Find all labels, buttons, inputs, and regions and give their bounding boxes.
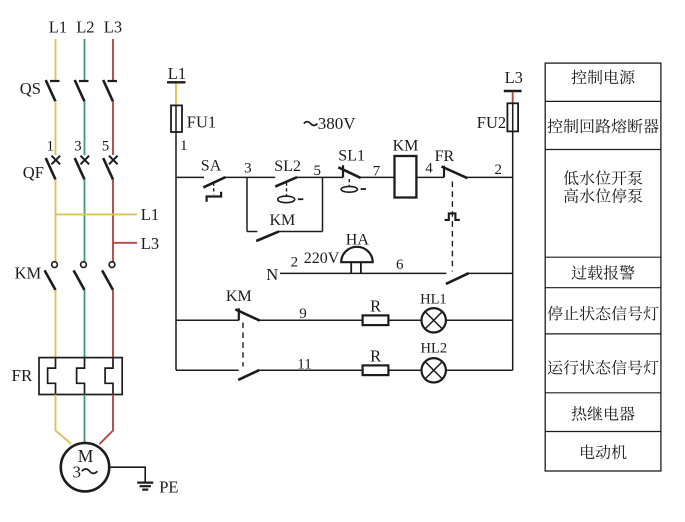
svg-text:HL1: HL1 xyxy=(420,291,447,307)
svg-text:L2: L2 xyxy=(76,17,94,36)
fuse FU1 xyxy=(171,105,182,132)
wire L1 tap xyxy=(56,213,138,215)
lamp HL2 xyxy=(422,358,446,382)
wire N line xyxy=(280,272,446,274)
svg-text:FU1: FU1 xyxy=(187,113,216,132)
wire rung SA-SL2 xyxy=(225,176,276,178)
label QF xyxy=(23,163,44,182)
label FU1 xyxy=(187,113,216,132)
switch SL2 xyxy=(275,177,297,186)
svg-text:9: 9 xyxy=(299,306,307,322)
contactor KM main pole 1 xyxy=(45,262,58,290)
wire rung1 left xyxy=(176,319,239,321)
svg-text:FU2: FU2 xyxy=(477,113,506,132)
operator SA xyxy=(207,183,222,202)
svg-text:3: 3 xyxy=(72,462,81,481)
thermal element FR 2 xyxy=(77,358,85,393)
label R1 xyxy=(370,296,381,315)
wire QF-KM phase 1 xyxy=(55,180,57,262)
label FR xyxy=(12,366,33,385)
label HL1 xyxy=(420,291,447,307)
wire FR-motor phase 3 xyxy=(99,395,113,445)
svg-text:L3: L3 xyxy=(141,234,159,253)
table row 低水位开泵 xyxy=(564,170,643,185)
table frame xyxy=(545,63,661,471)
wire rung SL1-KM xyxy=(361,176,395,178)
wire L1-FU1 xyxy=(175,84,177,107)
motor M circle xyxy=(61,443,109,491)
contact KM nc xyxy=(235,308,259,320)
label 1 control xyxy=(180,138,188,154)
wire QS-QF phase 3 xyxy=(112,101,114,155)
wire KM-FR phase 2 xyxy=(84,290,86,358)
svg-text:PE: PE xyxy=(159,477,178,496)
svg-text:380V: 380V xyxy=(318,114,357,133)
node 3 branch wire xyxy=(246,177,248,231)
label KM aux xyxy=(270,212,296,229)
table row 控制电源 xyxy=(571,70,634,85)
svg-text:FR: FR xyxy=(435,148,455,165)
svg-text:L1: L1 xyxy=(168,64,186,83)
table row 过载报警 xyxy=(572,265,635,280)
node 5 branch wire xyxy=(322,177,324,231)
wire rung left xyxy=(176,176,204,178)
coil KM xyxy=(395,156,417,198)
label 2 node xyxy=(495,162,503,178)
label 380V xyxy=(304,114,357,133)
wire QF-KM phase 3 xyxy=(112,180,114,262)
label 7 xyxy=(373,164,381,180)
svg-text:3: 3 xyxy=(74,138,82,154)
switch SA xyxy=(203,177,225,187)
label 2 alarm xyxy=(291,255,299,271)
ground PE xyxy=(137,483,153,490)
svg-text:7: 7 xyxy=(373,164,381,180)
svg-text:SA: SA xyxy=(201,157,222,174)
label N xyxy=(266,265,278,284)
svg-text:5: 5 xyxy=(102,138,110,154)
wire rung FR-right xyxy=(466,176,513,178)
motor label M xyxy=(78,446,94,466)
svg-text:4: 4 xyxy=(425,161,433,177)
contact SL1 xyxy=(338,165,360,178)
label 5 xyxy=(102,138,110,154)
label SL1 xyxy=(338,147,365,164)
wire QS-QF phase 2 xyxy=(84,101,86,155)
table row 停止状态信号灯 xyxy=(548,306,659,321)
label 4 xyxy=(425,161,433,177)
label 9 xyxy=(299,306,307,322)
svg-text:KM: KM xyxy=(270,212,296,229)
switch QS pole 3 xyxy=(103,80,117,102)
linkage FR dashed xyxy=(451,182,453,272)
svg-text:220V: 220V xyxy=(304,250,340,267)
label L1 control xyxy=(167,64,186,83)
label QS xyxy=(20,79,41,98)
wire N-right xyxy=(466,272,512,274)
wire HL1-right xyxy=(446,319,513,321)
svg-text:QF: QF xyxy=(23,163,44,182)
wire KM-FR phase 3 xyxy=(112,290,114,358)
label 11 xyxy=(297,357,311,373)
svg-text:KM: KM xyxy=(15,264,42,283)
resistor R1 xyxy=(363,315,389,325)
svg-text:L1: L1 xyxy=(141,205,159,224)
table row 热继电器 xyxy=(572,406,635,421)
label L2 phase xyxy=(76,17,94,36)
svg-text:5: 5 xyxy=(314,163,322,179)
label KM coil xyxy=(393,137,419,154)
wire rung KM-FR xyxy=(416,176,444,178)
label FU2 xyxy=(477,113,506,132)
wire left rail xyxy=(175,132,177,370)
contact KM aux xyxy=(247,231,323,241)
table row 高水位停泵 xyxy=(564,188,642,203)
label HL2 xyxy=(421,340,448,356)
wire right rail xyxy=(512,131,514,370)
label L3 control xyxy=(504,68,523,91)
wire L3 top xyxy=(112,39,114,81)
contact FR xyxy=(442,166,468,178)
svg-text:3: 3 xyxy=(244,161,252,177)
svg-text:KM: KM xyxy=(226,288,252,305)
table row 控制回路熔断器 xyxy=(547,119,658,134)
wire L1 top xyxy=(55,39,57,81)
label L3 phase xyxy=(104,17,122,36)
svg-text:QS: QS xyxy=(20,79,41,98)
svg-text:11: 11 xyxy=(297,357,311,373)
wire HL2-right xyxy=(446,369,513,371)
label FR contact xyxy=(435,148,455,165)
label 3 xyxy=(74,138,82,154)
alarm HA bell xyxy=(341,247,373,274)
wire motor-PE xyxy=(109,467,145,482)
svg-text:SL1: SL1 xyxy=(338,147,365,164)
svg-text:1: 1 xyxy=(46,138,54,154)
wire rung2 left xyxy=(176,369,239,371)
breaker QF pole 2 xyxy=(75,156,89,180)
contactor KM main pole 2 xyxy=(74,262,87,290)
wire FR-motor phase 1 xyxy=(56,395,71,444)
label SL2 xyxy=(274,158,301,175)
svg-text:2: 2 xyxy=(495,162,503,178)
label 3 node xyxy=(244,161,252,177)
label R2 xyxy=(370,346,381,365)
svg-text:R: R xyxy=(370,296,381,315)
label 6 xyxy=(396,257,404,273)
label 1 xyxy=(46,138,54,154)
overload symbol FR xyxy=(445,213,460,220)
breaker QF pole 3 xyxy=(103,156,117,180)
label 5 node xyxy=(314,163,322,179)
wire L3-FU2 xyxy=(512,92,514,104)
label SA xyxy=(201,157,222,174)
svg-text:6: 6 xyxy=(396,257,404,273)
thermal element FR 1 xyxy=(48,358,56,393)
label HA xyxy=(346,232,370,249)
wire L2 top xyxy=(84,39,86,81)
table row 运行状态信号灯 xyxy=(548,360,659,375)
resistor R2 xyxy=(363,365,389,375)
switch QS pole 2 xyxy=(75,80,89,102)
lamp HL1 xyxy=(422,308,446,332)
wire FR-motor phase 2 xyxy=(84,395,86,444)
fuse FU2 xyxy=(507,103,518,131)
wire rung SL2-SL1 xyxy=(297,176,344,178)
svg-text:L3: L3 xyxy=(505,68,523,87)
label KM main xyxy=(15,264,42,283)
wire QF-KM phase 2 xyxy=(84,180,86,262)
wire QS-QF phase 1 xyxy=(55,101,57,155)
wire R2-HL2 xyxy=(389,369,421,371)
node L1 tap label xyxy=(141,205,159,224)
table row 电动机 xyxy=(581,445,627,460)
contactor KM main pole 3 xyxy=(102,262,115,290)
svg-text:L1: L1 xyxy=(49,17,67,36)
contact FR alarm xyxy=(446,273,469,284)
breaker QF pole 1 xyxy=(46,156,60,180)
svg-text:FR: FR xyxy=(12,366,33,385)
label KM nc xyxy=(226,288,252,305)
contact KM no rung2 xyxy=(238,370,259,380)
label L1 phase xyxy=(49,17,67,36)
thermal relay FR box xyxy=(39,358,122,395)
svg-text:KM: KM xyxy=(393,137,419,154)
switch QS pole 1 xyxy=(46,80,60,102)
linkage KM dashed xyxy=(242,323,244,367)
svg-text:R: R xyxy=(370,346,381,365)
svg-text:1: 1 xyxy=(180,138,188,154)
svg-text:2: 2 xyxy=(291,255,299,271)
wire KM-FR phase 1 xyxy=(55,290,57,358)
wire rung2 mid xyxy=(259,369,362,371)
label 220V xyxy=(304,250,340,267)
svg-text:N: N xyxy=(266,265,278,284)
node L3 tap label xyxy=(141,234,159,253)
motor label 3~ xyxy=(72,462,97,481)
svg-text:HL2: HL2 xyxy=(421,340,448,356)
wire rung1 mid xyxy=(259,319,361,321)
svg-text:SL2: SL2 xyxy=(274,158,301,175)
label PE xyxy=(159,477,178,496)
wire R1-HL1 xyxy=(389,319,421,321)
float sensor SL2 xyxy=(278,183,304,203)
float sensor SL1 xyxy=(341,179,366,192)
thermal element FR 3 xyxy=(105,358,113,393)
svg-text:L3: L3 xyxy=(104,17,122,36)
wire L3 tap xyxy=(113,242,137,244)
